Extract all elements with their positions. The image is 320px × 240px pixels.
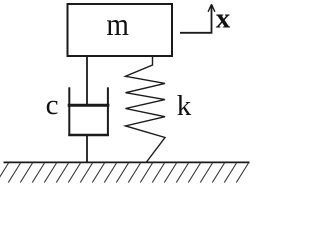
- svg-text:c: c: [46, 89, 59, 121]
- damper rod upper: [86, 55, 88, 105]
- damper cylinder left wall: [68, 87, 70, 136]
- mass block m: [68, 4, 173, 56]
- coordinate axis lines: [180, 6, 212, 33]
- damper cylinder bottom: [68, 134, 109, 137]
- spring k: [126, 56, 166, 162]
- damper rod lower: [86, 136, 88, 163]
- damper piston bar: [68, 104, 110, 107]
- svg-text:k: k: [177, 90, 192, 122]
- ground line: [4, 161, 250, 163]
- svg-text:x: x: [216, 2, 231, 34]
- arrowhead: [208, 4, 215, 12]
- damper cylinder right wall: [107, 87, 109, 136]
- ground hatching: [0, 163, 248, 183]
- svg-text:m: m: [106, 7, 129, 43]
